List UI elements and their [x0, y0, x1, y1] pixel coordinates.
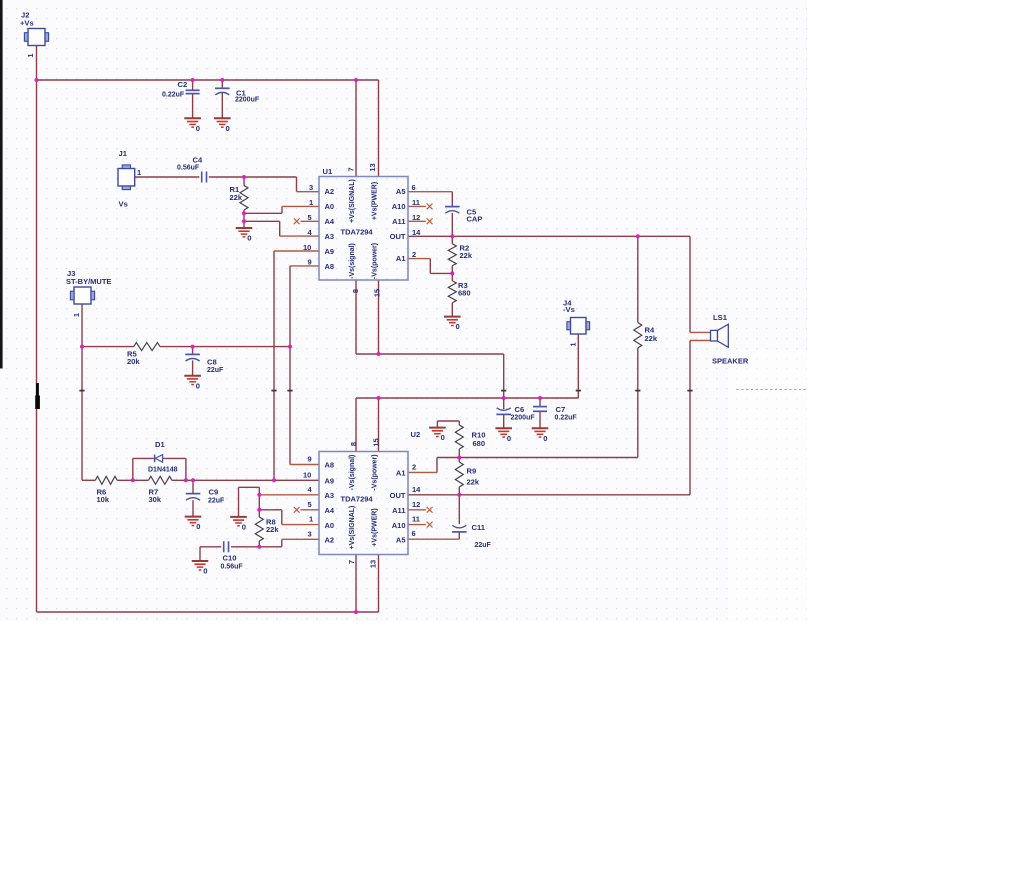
svg-text:1: 1 — [571, 342, 578, 346]
svg-text:15: 15 — [373, 289, 382, 297]
svg-text:0: 0 — [196, 381, 200, 390]
svg-text:A1: A1 — [396, 254, 406, 263]
svg-text:13: 13 — [368, 163, 377, 171]
svg-text:+Vs: +Vs — [20, 19, 34, 28]
svg-text:0.22uF: 0.22uF — [162, 92, 185, 99]
svg-text:Vs: Vs — [119, 200, 128, 209]
svg-text:6: 6 — [412, 183, 416, 192]
svg-text:2200uF: 2200uF — [235, 97, 260, 104]
svg-text:-Vs(signal): -Vs(signal) — [349, 455, 356, 491]
svg-text:C8: C8 — [207, 358, 217, 367]
svg-text:680: 680 — [458, 289, 471, 298]
svg-text:TDA7294: TDA7294 — [341, 495, 374, 504]
svg-text:C4: C4 — [193, 156, 203, 165]
svg-text:0.22uF: 0.22uF — [555, 415, 578, 422]
svg-text:11: 11 — [412, 198, 420, 207]
svg-text:LS1: LS1 — [713, 313, 728, 322]
svg-text:1: 1 — [309, 198, 313, 207]
svg-text:0: 0 — [456, 322, 460, 331]
svg-text:A5: A5 — [396, 535, 406, 544]
svg-text:A1: A1 — [396, 469, 406, 478]
svg-text:J1: J1 — [119, 149, 128, 158]
svg-text:0: 0 — [543, 434, 547, 443]
svg-text:A3: A3 — [325, 491, 335, 500]
svg-text:1: 1 — [74, 313, 81, 317]
svg-text:C11: C11 — [472, 523, 486, 532]
svg-text:13: 13 — [369, 560, 378, 568]
svg-text:10: 10 — [303, 243, 311, 252]
svg-text:SPEAKER: SPEAKER — [712, 357, 749, 366]
svg-text:A0: A0 — [325, 202, 335, 211]
svg-text:R9: R9 — [467, 467, 477, 476]
svg-text:0: 0 — [242, 523, 246, 532]
svg-text:7: 7 — [347, 560, 356, 564]
svg-text:A2: A2 — [325, 187, 335, 196]
svg-text:12: 12 — [412, 213, 420, 222]
svg-text:+Vs(PWER): +Vs(PWER) — [371, 182, 378, 220]
svg-text:0: 0 — [226, 124, 230, 133]
svg-text:+Vs(SIGNAL): +Vs(SIGNAL) — [349, 506, 356, 550]
svg-text:0.56uF: 0.56uF — [221, 564, 244, 571]
svg-text:2200uF: 2200uF — [511, 415, 536, 422]
svg-text:CAP: CAP — [467, 215, 483, 224]
svg-text:-Vs(signal): -Vs(signal) — [349, 243, 356, 279]
svg-text:9: 9 — [308, 258, 312, 267]
svg-text:C7: C7 — [556, 405, 566, 414]
svg-text:OUT: OUT — [390, 232, 406, 241]
svg-text:U1: U1 — [323, 167, 333, 176]
svg-text:+Vs(PWER): +Vs(PWER) — [371, 508, 378, 546]
svg-text:9: 9 — [308, 455, 312, 464]
svg-text:22uF: 22uF — [207, 367, 224, 374]
svg-text:22uF: 22uF — [208, 498, 225, 505]
svg-text:2: 2 — [412, 462, 416, 471]
svg-text:15: 15 — [372, 438, 381, 446]
svg-text:20k: 20k — [127, 357, 140, 366]
svg-text:A4: A4 — [325, 506, 335, 515]
svg-text:A10: A10 — [392, 521, 406, 530]
svg-text:A9: A9 — [325, 247, 335, 256]
svg-text:A5: A5 — [396, 187, 406, 196]
svg-text:5: 5 — [308, 500, 312, 509]
svg-text:30k: 30k — [149, 495, 162, 504]
svg-text:U2: U2 — [411, 430, 421, 439]
svg-text:680: 680 — [473, 439, 486, 448]
svg-text:0: 0 — [196, 124, 200, 133]
svg-text:3: 3 — [309, 183, 313, 192]
svg-text:0: 0 — [441, 433, 445, 442]
svg-text:A0: A0 — [325, 521, 335, 530]
svg-text:22k: 22k — [230, 193, 243, 202]
svg-text:0: 0 — [507, 434, 511, 443]
svg-text:0: 0 — [247, 234, 251, 243]
svg-text:A8: A8 — [325, 262, 335, 271]
svg-text:10k: 10k — [97, 495, 110, 504]
svg-text:ST-BY/MUTE: ST-BY/MUTE — [66, 277, 111, 286]
svg-text:0: 0 — [203, 567, 207, 576]
svg-text:8: 8 — [349, 442, 358, 446]
svg-text:OUT: OUT — [390, 491, 406, 500]
svg-text:A2: A2 — [325, 536, 335, 545]
svg-text:22k: 22k — [467, 478, 480, 487]
svg-text:1: 1 — [309, 515, 313, 524]
svg-text:11: 11 — [412, 515, 420, 524]
svg-text:10: 10 — [303, 470, 311, 479]
svg-text:-Vs: -Vs — [563, 305, 575, 314]
svg-text:2: 2 — [412, 250, 416, 259]
svg-text:A4: A4 — [325, 217, 335, 226]
svg-text:A10: A10 — [392, 202, 406, 211]
svg-text:1: 1 — [28, 53, 35, 57]
svg-text:TDA7294: TDA7294 — [341, 228, 374, 237]
svg-text:5: 5 — [308, 213, 312, 222]
svg-text:0.56uF: 0.56uF — [177, 165, 200, 172]
svg-text:-Vs(power): -Vs(power) — [371, 454, 378, 490]
svg-text:8: 8 — [351, 289, 360, 293]
svg-text:22k: 22k — [266, 525, 279, 534]
svg-text:6: 6 — [412, 529, 416, 538]
svg-text:+Vs(SIGNAL): +Vs(SIGNAL) — [349, 179, 356, 223]
svg-text:C2: C2 — [178, 80, 188, 89]
svg-text:A8: A8 — [325, 461, 335, 470]
svg-text:A11: A11 — [392, 217, 405, 226]
svg-text:22uF: 22uF — [475, 542, 492, 549]
svg-text:A3: A3 — [325, 232, 335, 241]
svg-text:7: 7 — [347, 167, 356, 171]
svg-text:A9: A9 — [325, 477, 335, 486]
svg-text:14: 14 — [412, 485, 421, 494]
svg-text:1: 1 — [137, 168, 141, 177]
svg-text:22k: 22k — [460, 251, 473, 260]
svg-text:A11: A11 — [392, 506, 405, 515]
svg-text:D1N4148: D1N4148 — [148, 467, 178, 474]
svg-text:C9: C9 — [209, 488, 219, 497]
svg-text:22k: 22k — [645, 334, 658, 343]
svg-text:C10: C10 — [223, 554, 237, 563]
svg-text:3: 3 — [308, 529, 312, 538]
svg-text:14: 14 — [412, 228, 421, 237]
svg-text:D1: D1 — [155, 440, 165, 449]
svg-text:C6: C6 — [515, 405, 525, 414]
svg-text:-Vs(power): -Vs(power) — [371, 243, 378, 279]
svg-text:0: 0 — [196, 522, 200, 531]
svg-text:12: 12 — [412, 500, 420, 509]
